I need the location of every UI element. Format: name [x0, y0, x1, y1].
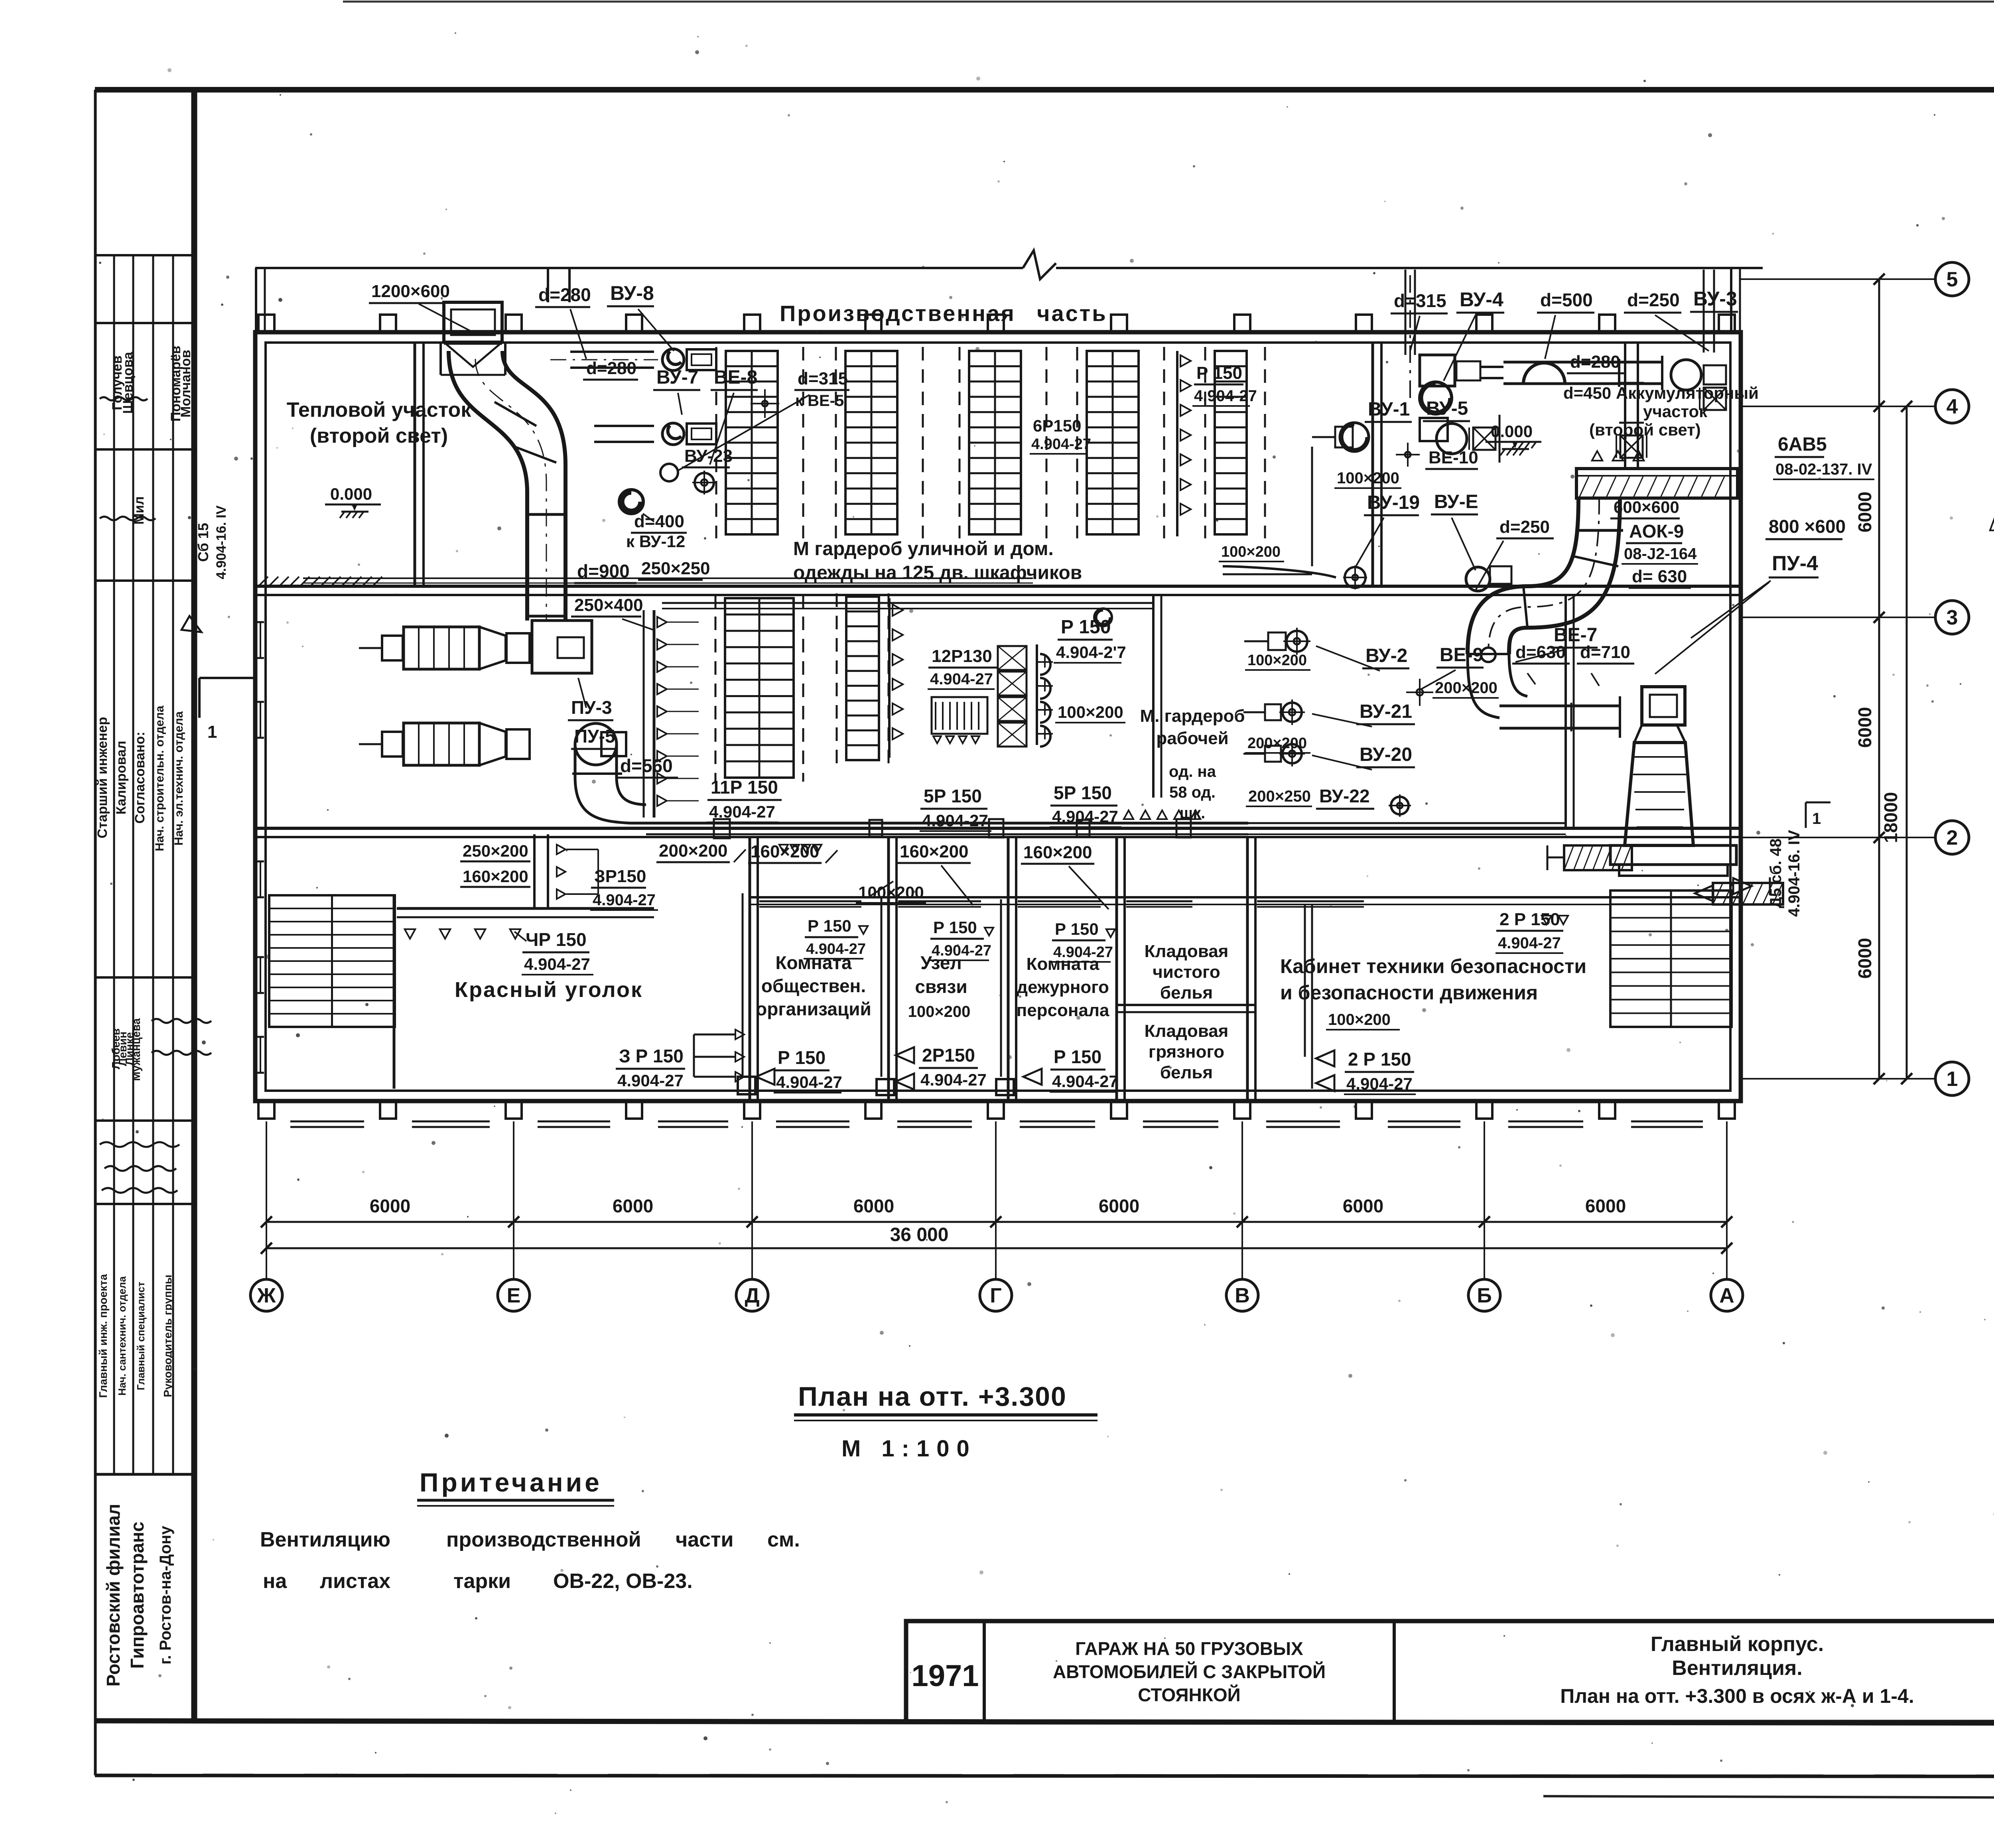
hatch band teplovoy wall	[259, 577, 382, 585]
svg-text:Ростовский филиал: Ростовский филиал	[103, 1504, 124, 1687]
label P150 r2	[929, 918, 993, 960]
label d=900	[574, 561, 636, 583]
svg-text:ВУ-19: ВУ-19	[1367, 492, 1420, 513]
border frame inner bottom	[94, 1721, 1994, 1724]
svg-text:ВУ-2: ВУ-2	[1365, 645, 1407, 666]
detail leader uzel B	[1990, 455, 1994, 530]
label 160x200 a	[460, 867, 530, 887]
svg-text:d=280: d=280	[1570, 352, 1620, 372]
svg-text:160×200: 160×200	[1023, 843, 1092, 862]
strip role Главный инж. проекта	[97, 1274, 109, 1398]
svg-text:5Р 150: 5Р 150	[1054, 782, 1112, 803]
label 2P150 kab	[1495, 910, 1568, 953]
svg-text:Гипроавтотранс: Гипроавтотранс	[127, 1522, 148, 1669]
svg-text:100×200: 100×200	[1058, 703, 1123, 721]
label 100x200 low	[856, 881, 926, 903]
svg-text:части: части	[676, 1528, 733, 1551]
label 100x200 kabinet	[1326, 1011, 1400, 1030]
dimension label 36000	[890, 1224, 949, 1245]
svg-text:Р 150: Р 150	[933, 918, 977, 937]
duct 250x200 drop	[534, 834, 598, 908]
svg-text:d= 630: d= 630	[1632, 567, 1687, 586]
svg-text:4.904-27: 4.904-27	[932, 942, 991, 959]
strip signature r2a	[132, 496, 147, 525]
svg-text:100×200: 100×200	[908, 1003, 971, 1021]
svg-text:d=560: d=560	[620, 755, 673, 776]
svg-text:100×200: 100×200	[1328, 1011, 1391, 1028]
label BU-7 BE-8	[653, 367, 758, 465]
strip role Старший инженер	[95, 717, 110, 839]
small fan top mid	[1094, 609, 1112, 626]
svg-text:6000: 6000	[1854, 707, 1875, 748]
duct run continue right	[1248, 823, 1566, 834]
svg-text:6000: 6000	[853, 1196, 894, 1216]
label BE-7	[1515, 625, 1598, 662]
svg-text:Вентиляция.: Вентиляция.	[1672, 1657, 1802, 1680]
svg-text:АОК-9: АОК-9	[1629, 521, 1684, 542]
svg-text:6000: 6000	[1854, 938, 1875, 979]
svg-text:2 Р 150: 2 Р 150	[1499, 910, 1560, 929]
duct stub d=250 up	[1704, 270, 1714, 353]
svg-text:600×600: 600×600	[1614, 498, 1679, 516]
svg-text:250×250: 250×250	[641, 559, 710, 578]
svg-text:Старший инженер: Старший инженер	[95, 717, 110, 839]
svg-text:Сб 15: Сб 15	[195, 523, 211, 562]
label 160x200 c	[897, 842, 973, 905]
svg-text:d=315: d=315	[798, 369, 848, 388]
svg-text:Красный уголок: Красный уголок	[455, 978, 643, 1002]
label P150 r1	[804, 916, 868, 959]
svg-text:ВЕ-10: ВЕ-10	[1429, 448, 1478, 467]
strip signatures r4	[152, 1019, 211, 1055]
svg-text:Калировал: Калировал	[114, 741, 129, 814]
margin section mark 1	[199, 678, 255, 742]
partition wall bottom band x3138	[1247, 837, 1255, 1100]
svg-text:200×250: 200×250	[1248, 788, 1311, 805]
margin note Сб 15	[195, 523, 211, 562]
duct stub d=315 up	[1405, 270, 1415, 355]
duct d=280 lower run	[594, 426, 654, 442]
svg-text:12Р130: 12Р130	[932, 646, 992, 666]
svg-text:200×200: 200×200	[1435, 679, 1497, 697]
label d=280 right	[1567, 352, 1624, 373]
border frame top	[95, 87, 1994, 93]
svg-text:Нач. эл.технич. отдела: Нач. эл.технич. отдела	[172, 711, 185, 845]
svg-text:ПУ-3: ПУ-3	[571, 697, 612, 718]
svg-text:одежды на 125 дв. шкафчиков: одежды на 125 дв. шкафчиков	[793, 562, 1082, 583]
svg-text:М. гардероб: М. гардероб	[1140, 706, 1245, 726]
svg-text:d=400: d=400	[634, 512, 684, 531]
label 6AB5	[1773, 434, 1874, 479]
svg-text:ВУ-Е: ВУ-Е	[1434, 491, 1478, 512]
fan BE-8 lower node	[660, 464, 678, 481]
strip signatures r5	[100, 1142, 179, 1193]
svg-text:6АВ5: 6АВ5	[1778, 434, 1827, 455]
paper bottom crease line	[1543, 1796, 1994, 1799]
duct horizontal to PU-4	[1499, 696, 1620, 738]
svg-text:ПУ-4: ПУ-4	[1772, 552, 1818, 575]
fan BU-20 node	[1243, 741, 1305, 766]
svg-text:4.904-27: 4.904-27	[806, 941, 866, 957]
svg-text:З Р 150: З Р 150	[619, 1046, 684, 1066]
diffuser strip middle	[644, 610, 699, 818]
svg-text:персонала: персонала	[1017, 1001, 1109, 1020]
diffuser column top band	[1177, 351, 1191, 536]
fan BU-21 node	[1243, 699, 1305, 725]
label P150 r3	[1051, 920, 1115, 962]
svg-text:250×400: 250×400	[574, 595, 643, 615]
plan scale	[841, 1436, 977, 1462]
svg-text:Мужанцева: Мужанцева	[130, 1018, 142, 1081]
label часть	[1037, 301, 1107, 326]
strip org Гипроавтотранс	[127, 1522, 148, 1669]
svg-text:5Р 150: 5Р 150	[924, 786, 982, 806]
strip role Нач. строительн. отдела	[153, 705, 166, 851]
margin right arrow	[1733, 877, 1770, 895]
svg-text:100×200: 100×200	[1247, 652, 1307, 669]
svg-text:1: 1	[1947, 1068, 1958, 1091]
strip name Мужанцева	[130, 1018, 142, 1081]
svg-text:(второй свет): (второй свет)	[310, 424, 448, 447]
svg-text:4.904-16. IV: 4.904-16. IV	[214, 505, 229, 579]
label 5P150 a	[920, 786, 991, 831]
svg-text:d=710: d=710	[1580, 642, 1630, 662]
label P150 bottom d	[1023, 1046, 1118, 1092]
label PU-4 margin	[1691, 552, 1819, 638]
svg-text:белья: белья	[1160, 983, 1213, 1003]
title block garage line2	[1053, 1661, 1326, 1682]
duct d=560 riser	[572, 723, 646, 823]
left wall extension above	[256, 268, 265, 332]
ground symbol right top	[1512, 442, 1541, 448]
wall vertical x3450 top band	[1373, 343, 1381, 586]
svg-text:d=250: d=250	[1627, 290, 1680, 310]
wall horizontal y1480	[255, 586, 1741, 595]
svg-text:1: 1	[1812, 810, 1821, 827]
duct d=500 with semicircle	[1503, 356, 1663, 390]
title block year 1971	[911, 1659, 979, 1693]
svg-text:М гардероб уличной и дом.: М гардероб уличной и дом.	[793, 538, 1054, 560]
title block outline	[906, 1621, 1994, 1722]
svg-text:Главный специалист: Главный специалист	[135, 1282, 147, 1391]
plan title	[794, 1381, 1097, 1420]
svg-text:d=500: d=500	[1540, 290, 1593, 310]
svg-text:Кладовая: Кладовая	[1145, 942, 1229, 961]
svg-text:Д: Д	[745, 1284, 759, 1307]
svg-text:Руководитель группы: Руководитель группы	[162, 1275, 174, 1397]
under-rack duct line	[303, 578, 1033, 583]
title block dividers	[984, 1621, 1994, 1722]
svg-text:58 од.: 58 од.	[1169, 784, 1216, 801]
strip horizontal divider y3697	[95, 1473, 194, 1476]
fan BU-19 node	[1343, 565, 1367, 589]
svg-text:Р 150: Р 150	[778, 1047, 826, 1068]
label 2P150 kab bottom	[1312, 1049, 1416, 1094]
strip name Лобеев	[110, 1028, 122, 1069]
strip signature r2b	[100, 517, 156, 520]
strip horizontal divider y2810	[95, 1119, 194, 1122]
label d=315 BU-4	[1391, 288, 1504, 381]
label P150 bottom b	[756, 1047, 842, 1093]
svg-text:Ж: Ж	[257, 1284, 276, 1307]
svg-text:4.904-16. IV: 4.904-16. IV	[1785, 830, 1803, 917]
axis circles bottom	[250, 1279, 1743, 1311]
label 100x200 bu2	[1245, 652, 1310, 670]
svg-text:АВТОМОБИЛЕЙ С ЗАКРЫТОЙ: АВТОМОБИЛЕЙ С ЗАКРЫТОЙ	[1053, 1661, 1326, 1682]
symbol C circle	[619, 490, 643, 514]
svg-text:(второй свет): (второй свет)	[1589, 420, 1701, 439]
strip name Голучев	[110, 355, 125, 410]
label BU-1 BU-5	[1365, 398, 1470, 422]
svg-text:Д5 сб. 48: Д5 сб. 48	[1767, 839, 1785, 908]
partition wall bottom band x1890	[750, 837, 758, 1100]
svg-text:организаций: организаций	[756, 999, 871, 1019]
svg-text:Кабинет техники безопасности: Кабинет техники безопасности	[1280, 955, 1586, 977]
svg-text:4.904-27: 4.904-27	[524, 955, 590, 973]
svg-text:5: 5	[1947, 268, 1958, 291]
label 100x200 top	[1334, 469, 1401, 488]
svg-text:Б: Б	[1477, 1284, 1492, 1307]
fan BU-23 small	[692, 471, 716, 495]
margin note 4.904-16.IV	[214, 505, 229, 579]
svg-text:План на отт. +3.300: План на отт. +3.300	[798, 1381, 1067, 1412]
intake louvre 1200x600	[441, 302, 505, 375]
svg-text:6000: 6000	[1343, 1196, 1383, 1216]
partition wall bottom band x2810	[1117, 837, 1125, 1100]
strip right edge thick	[191, 90, 197, 1721]
duct 600x600 channel	[1576, 451, 1738, 498]
label 11P150	[707, 777, 782, 822]
duct d=630 big elbow	[1468, 498, 1623, 654]
wall outlet hatch box	[1695, 883, 1783, 904]
svg-text:часть: часть	[1037, 301, 1107, 326]
svg-text:ВУ-8: ВУ-8	[610, 282, 654, 304]
svg-text:А: А	[1719, 1284, 1734, 1307]
svg-text:d=630: d=630	[1515, 642, 1566, 662]
label BU-23	[682, 446, 733, 467]
label 250x250	[638, 559, 710, 580]
label 100x200 mid	[1055, 703, 1125, 723]
wall vertical x3935 middle band	[1566, 595, 1574, 828]
svg-text:Молчанов: Молчанов	[178, 350, 193, 418]
stairs left	[269, 895, 395, 1089]
hanger box middle	[932, 697, 987, 743]
label d=630 d=710	[1512, 642, 1634, 686]
svg-text:Вентиляцию: Вентиляцию	[260, 1528, 390, 1551]
unit PU-5	[359, 723, 530, 765]
strip role Нач. эл.технич. отдела	[172, 711, 185, 845]
strip name Шевцова	[120, 351, 136, 414]
label 12P130	[928, 646, 997, 689]
svg-text:2: 2	[1947, 826, 1958, 849]
label d=630 upper	[1629, 567, 1691, 588]
svg-text:0.000: 0.000	[1491, 422, 1533, 441]
wardrobe racks top band	[716, 347, 1164, 538]
corridor wall bottom band	[750, 897, 1741, 904]
svg-text:Р 150: Р 150	[808, 916, 851, 935]
svg-text:ГАРАЖ НА 50 ГРУЗОВЫХ: ГАРАЖ НА 50 ГРУЗОВЫХ	[1075, 1638, 1303, 1659]
label Тепловой участок	[287, 398, 472, 422]
svg-text:4.904-27: 4.904-27	[922, 811, 988, 830]
svg-text:В: В	[1235, 1284, 1250, 1307]
svg-text:160×200: 160×200	[463, 867, 528, 886]
svg-text:18000: 18000	[1880, 792, 1901, 843]
svg-text:d=315: d=315	[1394, 290, 1446, 311]
margin right rotated D5	[1767, 830, 1803, 917]
svg-text:1200×600: 1200×600	[371, 282, 450, 301]
svg-text:Е: Е	[507, 1284, 521, 1307]
label М гардероб уличной	[793, 538, 1054, 560]
hooks column middle	[1037, 644, 1053, 747]
strip name Линке	[123, 1032, 136, 1065]
cut line production part	[255, 267, 1763, 269]
fan BU-1 BU-5 cluster	[1312, 415, 1499, 463]
svg-text:4.904-27: 4.904-27	[1194, 387, 1257, 405]
svg-text:11Р 150: 11Р 150	[711, 777, 778, 798]
duct BE-7 drop	[1468, 648, 1527, 718]
svg-text:6000: 6000	[1854, 492, 1875, 532]
branch triangles below wall	[779, 845, 822, 853]
window sills below bottom wall	[290, 1121, 1703, 1127]
partition wall bottom band x2538	[1008, 837, 1016, 1100]
unit PU-4 cone	[1610, 687, 1736, 876]
dim label 18000	[1880, 792, 1901, 843]
svg-text:од. на: од. на	[1169, 763, 1216, 780]
label BU-22	[1316, 786, 1411, 817]
note line 1	[260, 1528, 800, 1551]
vertical dim line 6000s right	[1874, 274, 1885, 1084]
duct d=280 upper run	[550, 352, 658, 368]
strip horizontal divider y810	[95, 322, 194, 324]
axis circles right	[1741, 262, 1969, 1095]
label Кладовая грязного	[1145, 1021, 1229, 1082]
fan BU-7	[662, 423, 716, 445]
svg-text:100×200: 100×200	[1337, 469, 1399, 487]
svg-text:160×200: 160×200	[900, 842, 969, 861]
margin arrow	[181, 616, 205, 639]
label d=315 kBE-5	[678, 369, 849, 471]
dim label 6000 r3	[1854, 938, 1875, 979]
fan BU-4 group	[1420, 355, 1503, 414]
axis extension lines bottom	[266, 1121, 1727, 1279]
column stubs below bottom wall	[258, 1100, 1735, 1119]
wall kladovaya divider	[1117, 1005, 1255, 1012]
svg-text:ВУ-7: ВУ-7	[656, 367, 698, 388]
left wall sill ticks	[257, 622, 264, 1073]
wall vertical x2900 middle band	[1153, 595, 1161, 798]
svg-text:к ВЕ-5: к ВЕ-5	[795, 392, 844, 410]
label d=250 mid	[1476, 517, 1554, 590]
svg-text:Согласовано:: Согласовано:	[132, 732, 148, 824]
label Аккумуляторный	[1563, 384, 1759, 439]
strip name Левин	[116, 1032, 129, 1066]
svg-text:ВУ-1: ВУ-1	[1368, 399, 1410, 420]
dim label 6000 r2	[1854, 707, 1875, 748]
strip horizontal divider y640	[95, 254, 194, 256]
fan BU-3 group	[1671, 360, 1730, 410]
strip signature r1	[100, 397, 148, 400]
svg-text:Главный инж. проекта: Главный инж. проекта	[97, 1274, 109, 1398]
grid rack middle	[715, 594, 803, 782]
label d=400 k BU-12	[626, 512, 687, 551]
label d=280 BU-8	[535, 282, 674, 359]
svg-text:100×200: 100×200	[1221, 544, 1281, 560]
svg-text:4.904-27: 4.904-27	[1031, 436, 1091, 453]
svg-text:2Р150: 2Р150	[922, 1045, 975, 1066]
svg-text:ВУ-22: ВУ-22	[1319, 786, 1370, 806]
label второй свет	[310, 424, 448, 447]
svg-text:ОВ-22, ОВ-23.: ОВ-22, ОВ-23.	[553, 1570, 693, 1593]
riser duct x4090	[1616, 343, 1647, 469]
paper top edge hairline	[343, 1, 1994, 3]
svg-text:Р 150: Р 150	[1054, 1046, 1101, 1067]
svg-text:Р 150: Р 150	[1055, 920, 1099, 938]
svg-text:План на отт. +3.300 в ос: План на отт. +3.300 в осях ж-А и 1-4.	[1560, 1685, 1914, 1707]
label 250x200	[460, 841, 530, 861]
duct run y2285	[397, 908, 654, 939]
svg-text:М 1:100: М 1:100	[841, 1436, 977, 1462]
label 5P150 b	[1050, 782, 1121, 827]
fan BU-8	[662, 349, 716, 370]
wall vertical x1050 top band	[415, 343, 424, 586]
label Производственная	[780, 301, 1016, 326]
label Комната обществен	[756, 952, 871, 1019]
label BU-20	[1312, 744, 1415, 770]
vertical dim line 18000 right	[1901, 401, 1912, 1084]
label d=250 BU-3	[1624, 288, 1738, 351]
svg-text:6000: 6000	[1585, 1196, 1626, 1216]
svg-text:d=250: d=250	[1499, 517, 1550, 537]
svg-text:белья: белья	[1160, 1063, 1213, 1082]
duct d=900 elbow and riser	[449, 351, 565, 621]
label PU-3	[568, 678, 613, 720]
svg-text:обществен.: обществен.	[761, 975, 866, 996]
svg-text:4.904-27: 4.904-27	[920, 1070, 987, 1089]
svg-text:6000: 6000	[613, 1196, 653, 1216]
strip org Ростовский филиал	[103, 1504, 124, 1687]
svg-text:6000: 6000	[1099, 1196, 1139, 1216]
svg-text:грязного: грязного	[1149, 1042, 1224, 1062]
svg-text:Нач. строительн. отдела: Нач. строительн. отдела	[153, 705, 166, 851]
strip role Нач. сантехнич. отдела	[116, 1276, 128, 1396]
svg-text:Нач. сантехнич. отдела: Нач. сантехнич. отдела	[116, 1276, 128, 1396]
svg-text:4.904-27: 4.904-27	[1498, 934, 1561, 952]
svg-text:4: 4	[1947, 395, 1958, 418]
svg-text:ЧР 150: ЧР 150	[526, 929, 587, 950]
svg-text:ВУ-3: ВУ-3	[1693, 288, 1737, 310]
label 800x600	[1765, 516, 1846, 539]
label од на 58	[1169, 763, 1216, 822]
strip name Молчанов	[178, 350, 193, 418]
svg-text:участок: участок	[1643, 402, 1708, 421]
note line 2	[263, 1570, 693, 1593]
svg-text:08-02-137. IV: 08-02-137. IV	[1775, 461, 1872, 478]
mid crossmark node	[1406, 679, 1433, 706]
label 3P150 a	[590, 867, 658, 910]
svg-text:ВУ-20: ВУ-20	[1360, 744, 1412, 765]
label 200x250	[1246, 788, 1312, 806]
unit PU-4 base hatch	[1547, 845, 1632, 870]
title block main line3	[1560, 1685, 1914, 1707]
label P150 top	[1192, 363, 1257, 406]
title block main line2	[1672, 1657, 1802, 1680]
duct d=315 dashdot	[1409, 275, 1411, 399]
strip horizontal divider y2451	[95, 976, 194, 979]
svg-text:3: 3	[1947, 606, 1958, 629]
label d=280 lower	[583, 359, 638, 380]
elevation mark 0.000 right	[1486, 422, 1541, 455]
svg-text:4.904-27: 4.904-27	[1052, 1072, 1118, 1091]
